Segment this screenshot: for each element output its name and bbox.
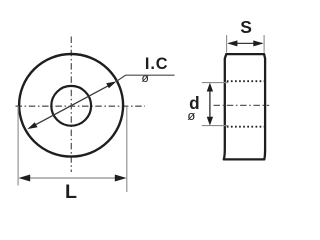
svg-text:L: L [65,181,77,203]
hidden hole line (bottom, dotted) [227,126,265,128]
vertical centerline of round insert [70,37,72,173]
svg-text:ø: ø [142,71,150,85]
side view horizontal centerline [214,104,270,106]
L dimension line with arrowheads [19,175,127,182]
L left extension line [17,106,19,186]
svg-text:S: S [240,17,252,37]
S right extension line [263,35,265,53]
L right extension line [126,107,128,192]
hidden hole line (top, dotted) [227,80,265,82]
svg-text:ø: ø [187,108,195,123]
horizontal centerline of round insert [16,105,146,107]
S dimension line with arrowheads [227,40,263,46]
d top extension line [202,82,228,84]
inner circle (mounting hole) [51,86,91,126]
S left extension line [226,35,228,53]
side view body outline [224,54,265,159]
d dimension line with arrowheads (vertical) [207,83,213,126]
leader line from I.C arrow to label [116,75,174,81]
d bottom extension line [202,125,228,127]
I.C diameter arrow (diagonal, double-headed) [27,81,116,129]
outer circle (insert periphery) [19,54,123,157]
